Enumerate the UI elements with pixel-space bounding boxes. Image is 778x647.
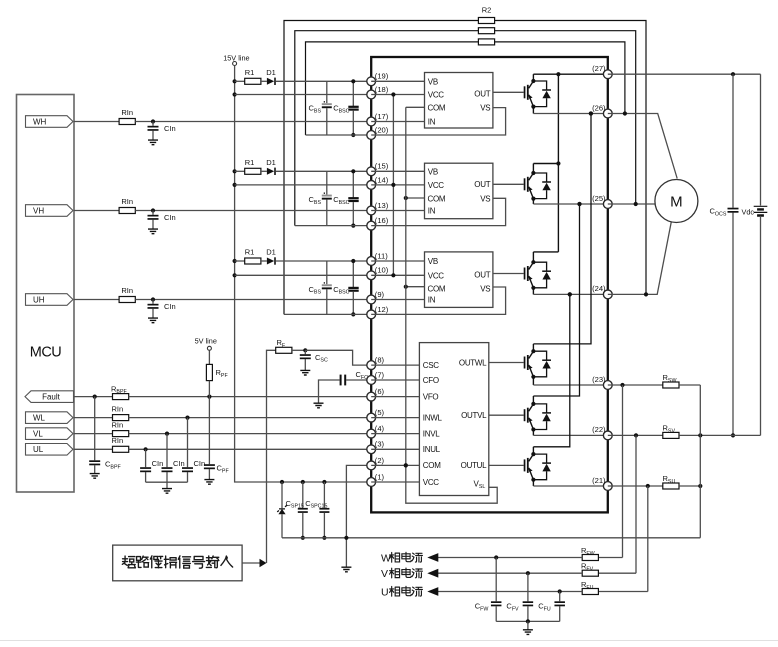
svg-text:VS: VS — [480, 195, 490, 204]
node pin1 line junctions — [280, 480, 284, 484]
svg-text:(9): (9) — [375, 290, 385, 299]
op-amp U2 high-side driver block — [425, 163, 493, 219]
transistor Q3 high-side IGBT phase U with freewheel diode — [493, 273, 524, 275]
resistor RFV — [598, 572, 636, 574]
pin (10) — [367, 271, 376, 280]
pin (13) — [367, 206, 376, 215]
wire VH line to pin (13) — [135, 210, 371, 212]
wire ground rail — [282, 537, 700, 539]
op-amp U3 high-side driver block — [425, 252, 493, 308]
wire short-circuit signal to RF — [267, 350, 276, 563]
wire pin(25) to motor — [608, 203, 655, 205]
wire RSU to negative bus — [679, 485, 700, 487]
svg-text:(20): (20) — [375, 125, 389, 134]
pin (16) — [367, 221, 376, 230]
arrow short-circuit signal — [242, 562, 259, 564]
wire WH line — [74, 121, 119, 123]
wire pin(26) to motor — [608, 114, 677, 179]
transistor Q6 low-side IGBT phase U with freewheel diode — [489, 464, 524, 466]
pin (3) — [367, 445, 376, 454]
svg-text:(21): (21) — [592, 476, 606, 485]
wire VB line phase 2 — [276, 170, 371, 172]
svg-text:5V line: 5V line — [195, 337, 217, 346]
arrow phase W current output — [427, 553, 438, 562]
svg-text:CIn: CIn — [164, 124, 176, 133]
wire low-side emitter V to pin(22) — [533, 434, 607, 436]
pin (20) — [367, 131, 376, 140]
capacitor CBSC (phase 1) — [352, 81, 354, 106]
pin (24) — [603, 290, 612, 299]
arrow phase V current output — [427, 569, 438, 578]
capacitor CSC — [304, 350, 306, 354]
svg-text:Vdc: Vdc — [742, 208, 755, 217]
wire low-side collector rail V — [533, 204, 579, 396]
node Fault-RPF junction — [207, 395, 211, 399]
pin (22) — [603, 431, 612, 440]
svg-text:M: M — [670, 194, 683, 211]
svg-text:CIn: CIn — [194, 459, 206, 468]
svg-text:RIn: RIn — [111, 420, 123, 429]
MCU block outline — [17, 95, 75, 493]
pin (23) — [603, 381, 612, 390]
pin (11) — [367, 257, 376, 266]
svg-text:(26): (26) — [592, 103, 606, 112]
wire low-side collector rail W — [533, 114, 591, 344]
svg-text:(27): (27) — [592, 64, 606, 73]
capacitor CIn (UL) — [145, 449, 147, 467]
wire VSL loop to COM net — [406, 465, 497, 503]
wire bottom separator — [0, 640, 778, 642]
svg-text:(7): (7) — [375, 370, 385, 379]
svg-text:CIn: CIn — [152, 459, 164, 468]
wire RSW to negative bus — [679, 384, 700, 386]
svg-text:OUTVL: OUTVL — [461, 411, 487, 420]
pin (17) — [367, 117, 376, 126]
capacitor CIn (UH) — [152, 300, 154, 304]
wire 5V down to CPF — [208, 397, 210, 465]
wire VS loop to pin(16) (phase 2) — [371, 198, 505, 225]
pin (5) — [367, 413, 376, 422]
svg-text:U: U — [381, 586, 389, 598]
motor M — [655, 180, 698, 223]
resistor RIn (VL) — [113, 431, 129, 437]
node 15V junction phase 2 — [233, 169, 237, 173]
svg-text:D1: D1 — [266, 248, 276, 257]
svg-text:D1: D1 — [266, 68, 276, 77]
wire pin(27) to Vdc positive — [608, 73, 761, 75]
wire pin(10) to VCC — [371, 274, 424, 276]
transistor Q1 high-side IGBT phase W with freewheel diode — [493, 91, 524, 93]
MCU port VL — [26, 428, 74, 440]
resistor RSV — [663, 432, 679, 438]
wire UL line — [74, 448, 113, 450]
capacitor CBS (phase 2) — [326, 171, 328, 194]
wire VCC line phase 3 — [235, 274, 372, 276]
wire phase V current sense vertical — [635, 435, 637, 573]
svg-text:VCC: VCC — [428, 91, 445, 100]
transistor Q2 high-side IGBT phase V with freewheel diode — [493, 183, 524, 185]
resistor R1 (phase 2) — [235, 170, 245, 172]
wire CSC node to pin (8) — [305, 350, 371, 365]
resistor RIn (WL) — [113, 415, 129, 421]
svg-text:(23): (23) — [592, 375, 606, 384]
svg-text:RIn: RIn — [121, 108, 133, 117]
capacitor CIn (WL) — [187, 418, 189, 468]
ground (CPF) — [204, 480, 214, 485]
svg-text:RIn: RIn — [111, 436, 123, 445]
svg-text:D1: D1 — [266, 158, 276, 167]
wire COM to COM net (phase 3) — [406, 286, 425, 288]
resistor RSW — [663, 382, 679, 388]
MCU port UH — [26, 294, 74, 306]
loop R2 phase-U wire (VS pin12 rail to pin24) — [284, 21, 478, 315]
svg-text:Fault: Fault — [42, 393, 61, 402]
wire low-side emitter U to pin(21) — [533, 485, 607, 487]
wire pin(17) to IN — [371, 121, 424, 123]
wire Fault line to pin (6) — [129, 396, 372, 398]
svg-text:VCC: VCC — [423, 478, 440, 487]
svg-text:COM: COM — [428, 285, 446, 294]
svg-text:(11): (11) — [375, 251, 388, 260]
wire VS loop to pin(20) (phase 1) — [371, 108, 505, 135]
wire VB line phase 3 — [276, 260, 371, 262]
svg-text:IN: IN — [428, 296, 436, 305]
wire phase W current line — [436, 557, 582, 559]
wire COM pin2 to ground — [346, 465, 371, 567]
wire emitter U to pin(24) — [533, 293, 607, 295]
wire negative bus vertical — [699, 385, 701, 538]
wire pin(3) to low-side block — [371, 448, 419, 450]
capacitor CBSC (phase 2) — [352, 171, 354, 197]
wire pin(22) line — [608, 434, 663, 436]
wire WL line — [74, 417, 113, 419]
capacitor CFU — [559, 592, 561, 602]
capacitor CFO — [346, 379, 371, 381]
MCU port Fault — [25, 391, 74, 403]
wire RPF to Fault line — [208, 381, 210, 397]
svg-text:IN: IN — [428, 118, 436, 127]
pin (19) — [367, 77, 376, 86]
svg-text:(8): (8) — [375, 356, 385, 365]
wire pin(1) to low-side block — [371, 481, 419, 483]
pin (6) — [367, 392, 376, 401]
ground (CFO) — [314, 403, 324, 408]
ground (CSC) — [300, 370, 310, 375]
capacitor CSP15 — [302, 482, 304, 508]
capacitor CPF — [204, 464, 215, 469]
15V rail wire down to pin 1 — [235, 66, 372, 483]
pin (15) — [367, 167, 376, 176]
wire VB line phase 1 — [276, 80, 371, 82]
svg-text:OUTUL: OUTUL — [461, 461, 487, 470]
svg-text:VH: VH — [33, 206, 44, 215]
wire UH line — [74, 299, 119, 301]
wire pin(13) to IN — [371, 210, 424, 212]
pin (18) — [367, 90, 376, 99]
pin (27) — [603, 70, 612, 79]
wire low-side emitter W to pin(23) — [533, 384, 607, 386]
svg-text:INVL: INVL — [423, 429, 440, 438]
pin (25) — [603, 200, 612, 209]
svg-text:VB: VB — [428, 257, 438, 266]
capacitor COCS — [732, 74, 734, 208]
svg-text:(4): (4) — [375, 424, 385, 433]
transistor Q5 low-side IGBT phase V with freewheel diode — [489, 414, 524, 416]
resistor R2 — [478, 18, 494, 24]
svg-text:(16): (16) — [375, 216, 389, 225]
capacitor CFV — [527, 573, 529, 601]
wire COM to COM net (phase 2) — [406, 197, 425, 199]
svg-text:VFO: VFO — [423, 392, 439, 401]
ground (CBPF) — [90, 474, 100, 479]
svg-text:15V line: 15V line — [223, 53, 249, 62]
battery Vdc — [760, 74, 762, 205]
MCU port WL — [26, 412, 74, 424]
wire pin(23) line — [608, 384, 663, 386]
svg-text:CIn: CIn — [164, 213, 176, 222]
node Fault-CBPF junction — [93, 395, 97, 399]
svg-text:(3): (3) — [375, 440, 385, 449]
resistor RPF — [208, 350, 210, 364]
svg-text:CIn: CIn — [173, 459, 185, 468]
pin (14) — [367, 181, 376, 190]
ground (WH CIn) — [148, 140, 158, 145]
pin (2) — [367, 461, 376, 470]
ground (CIn rail) — [162, 489, 172, 494]
svg-text:R1: R1 — [245, 68, 255, 77]
capacitor CSPC15 — [323, 482, 325, 508]
resistor R1 (phase 3) — [235, 260, 245, 262]
svg-text:CIn: CIn — [164, 302, 176, 311]
short-circuit protection input box — [113, 545, 242, 581]
wire RSV to negative bus — [679, 434, 760, 436]
svg-text:OUT: OUT — [474, 90, 490, 99]
ground (UH CIn) — [148, 318, 158, 323]
wire COM internal net vertical — [405, 107, 407, 465]
wire pin(11) to VB — [371, 260, 424, 262]
resistor RIn (UL) — [113, 446, 129, 452]
wire pin(15) to VB — [371, 170, 424, 172]
svg-text:RIn: RIn — [121, 197, 133, 206]
node 15V junction phase 1 — [233, 79, 237, 83]
svg-text:(14): (14) — [375, 175, 389, 184]
svg-text:INWL: INWL — [423, 413, 443, 422]
wire phase1 collector rail — [533, 73, 558, 75]
resistor R1 (phase 1) — [235, 80, 245, 82]
MCU port UL — [26, 444, 74, 456]
svg-text:(24): (24) — [592, 284, 606, 293]
svg-text:(10): (10) — [375, 266, 389, 275]
wire pin(8) to low-side block — [371, 364, 419, 366]
svg-text:OUT: OUT — [474, 180, 490, 189]
svg-text:CFO: CFO — [423, 376, 439, 385]
svg-text:MCU: MCU — [30, 345, 62, 361]
pin (7) — [367, 376, 376, 385]
wire phase U current line — [436, 591, 582, 593]
node 15V junction phase 3 — [233, 259, 237, 263]
wire emitter W to pin(26) — [533, 113, 607, 115]
wire pin(9) to IN — [371, 299, 424, 301]
ground (COM) — [341, 567, 351, 572]
svg-text:IN: IN — [428, 207, 436, 216]
wire VS rail phase 3 — [284, 313, 371, 315]
wire VCC internal net — [392, 95, 394, 276]
svg-text:COM: COM — [423, 461, 441, 470]
svg-text:(17): (17) — [375, 112, 389, 121]
svg-text:(6): (6) — [375, 387, 385, 396]
wire P-bus vertical — [557, 74, 559, 252]
wire emitter V to pin(25) — [533, 203, 607, 205]
svg-text:WH: WH — [33, 117, 47, 126]
wire phase V current line — [436, 572, 582, 574]
wire pin(7) to low-side block — [371, 379, 419, 381]
loop resistor phase-V wire (VS pin16 rail to pin25) — [295, 31, 479, 226]
wire WH line to pin (17) — [135, 121, 371, 123]
wire pin(21) line — [608, 485, 663, 487]
capacitor CFW — [495, 558, 497, 602]
svg-text:V: V — [381, 568, 388, 580]
svg-text:VS: VS — [480, 285, 490, 294]
wire pin(14) to VCC — [371, 184, 424, 186]
wire WL line to pin — [129, 417, 372, 419]
resistor RFU — [598, 591, 647, 593]
wire pin(27) P line — [558, 73, 607, 75]
arrow phase U current output — [427, 587, 438, 596]
wire VL line — [74, 433, 113, 435]
resistor RFW — [598, 557, 622, 559]
svg-text:CSC: CSC — [423, 361, 440, 370]
svg-text:(18): (18) — [375, 85, 389, 94]
wire UL line to pin — [129, 448, 372, 450]
resistor RIn (UH) — [119, 297, 135, 303]
svg-text:(13): (13) — [375, 201, 389, 210]
svg-text:OUTWL: OUTWL — [459, 358, 487, 367]
svg-text:RIn: RIn — [111, 404, 123, 413]
svg-text:(12): (12) — [375, 305, 389, 314]
wire UH line to pin (9) — [135, 299, 371, 301]
ground (current sense) — [523, 630, 533, 635]
wire phase2 collector rail — [533, 163, 558, 165]
loop resistor phase-W wire (VS pin20 rail to pin26) — [306, 42, 479, 135]
wire Fault line — [74, 396, 113, 398]
resistor RBPF — [113, 394, 129, 400]
transistor Q4 low-side IGBT phase W with freewheel diode — [489, 362, 524, 364]
capacitor CBSC (phase 3) — [352, 261, 354, 287]
capacitor CBS (phase 1) — [326, 81, 328, 103]
svg-text:(5): (5) — [375, 408, 385, 417]
wire pin(18) to VCC — [371, 94, 424, 96]
wire pin(5) to low-side block — [371, 417, 419, 419]
svg-text:COM: COM — [428, 103, 446, 112]
wire COM to COM net (phase 1) — [406, 106, 425, 108]
wire pin(2) to low-side block — [371, 464, 419, 466]
wire CF common rail — [496, 620, 560, 622]
svg-text:(2): (2) — [375, 456, 385, 465]
diode D1 (phase 3) — [261, 260, 267, 262]
svg-text:OUT: OUT — [474, 270, 490, 279]
svg-text:UH: UH — [33, 295, 45, 304]
svg-text:COM: COM — [428, 195, 446, 204]
svg-text:R1: R1 — [245, 248, 255, 257]
svg-text:VL: VL — [33, 430, 43, 439]
resistor (loop V) — [478, 28, 494, 34]
zener diode (15V clamp) — [281, 482, 283, 508]
svg-text:R2: R2 — [482, 6, 492, 15]
svg-text:(19): (19) — [375, 72, 389, 81]
MCU port WH — [26, 116, 74, 128]
diode D1 (phase 1) — [261, 80, 267, 82]
capacitor CBPF — [94, 397, 96, 461]
svg-text:(15): (15) — [375, 162, 389, 171]
svg-text:VB: VB — [428, 77, 438, 86]
capacitor CIn (VH) — [152, 211, 154, 215]
svg-text:VB: VB — [428, 167, 438, 176]
pin (21) — [603, 482, 612, 491]
pin (4) — [367, 429, 376, 438]
wire VCC line phase 2 — [235, 184, 372, 186]
wire low-side collector rail U — [533, 294, 569, 446]
wire VH line — [74, 210, 119, 212]
wire VS loop to pin(12) (phase 3) — [371, 287, 505, 314]
short-circuit protection label 短路保护信号输入 — [122, 556, 232, 568]
wire CIn common rail — [146, 481, 188, 483]
pin (12) — [367, 310, 376, 319]
wire VS rail phase 1 — [306, 134, 372, 136]
pin (9) — [367, 295, 376, 304]
capacitor CIn (WH) — [152, 122, 154, 126]
wire VL line to pin — [129, 433, 372, 435]
wire RF to CSC node — [292, 349, 305, 351]
wire CFO to ground — [319, 380, 340, 403]
svg-text:INUL: INUL — [423, 445, 441, 454]
svg-text:VS: VS — [480, 103, 490, 112]
resistor RSU — [663, 483, 679, 489]
svg-text:RIn: RIn — [121, 286, 133, 295]
svg-text:WL: WL — [33, 414, 46, 423]
pin (8) — [367, 361, 376, 370]
IPM module outline — [371, 57, 608, 512]
capacitor CBS (phase 3) — [326, 261, 328, 284]
wire phase U current sense vertical — [647, 486, 649, 592]
wire VS rail phase 2 — [295, 225, 371, 227]
wire phase W current sense vertical — [622, 385, 624, 558]
ground (VH CIn) — [148, 229, 158, 234]
wire pin(6) to low-side block — [371, 396, 419, 398]
wire VCC line phase 1 — [235, 94, 372, 96]
resistor RF — [276, 347, 292, 353]
pin (1) — [367, 478, 376, 487]
svg-text:(1): (1) — [375, 472, 385, 481]
capacitor CIn (VL) — [166, 434, 168, 468]
resistor RIn (WH) — [119, 119, 135, 125]
5V line terminal — [207, 346, 211, 350]
svg-text:UL: UL — [33, 445, 44, 454]
resistor (loop W) — [478, 39, 494, 45]
svg-text:R1: R1 — [245, 158, 255, 167]
op-amp U4 low-side driver block — [419, 343, 488, 496]
svg-text:(25): (25) — [592, 194, 606, 203]
wire pin(24) to motor — [608, 221, 672, 295]
svg-text:VCC: VCC — [428, 271, 445, 280]
15V line terminal — [233, 62, 237, 66]
op-amp U1 high-side driver block — [425, 73, 493, 129]
svg-text:VCC: VCC — [428, 181, 445, 190]
wire pin(4) to low-side block — [371, 433, 419, 435]
svg-text:(22): (22) — [592, 425, 606, 434]
wire phase3 collector rail — [533, 251, 558, 253]
wire pin(19) to VB — [371, 80, 424, 82]
MCU port VH — [26, 205, 74, 217]
